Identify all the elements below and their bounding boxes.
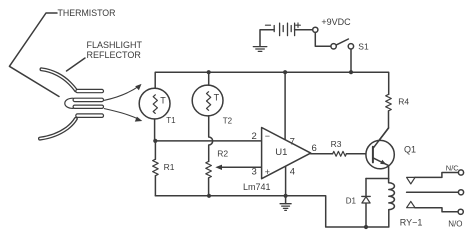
leader line from THERMISTOR label to sensor element [9, 13, 59, 97]
wire R1 leads [154, 141, 156, 196]
svg-text:R2: R2 [217, 149, 228, 159]
resistor R1 [153, 159, 159, 176]
terminal common [458, 190, 463, 195]
svg-text:RY−1: RY−1 [400, 217, 423, 227]
resistor R3 [333, 151, 347, 156]
thermistor T1 [139, 88, 170, 119]
svg-text:REFLECTOR: REFLECTOR [87, 50, 142, 60]
wire R4 to Q1 collector [374, 111, 389, 148]
svg-text:7: 7 [290, 136, 295, 147]
leader line from REFLECTOR label to reflector [67, 58, 86, 71]
resistor R4 [386, 94, 392, 111]
op-amp U1 [262, 128, 311, 179]
relay contact N/C [407, 177, 415, 184]
heat ray arrow upper [104, 86, 139, 101]
svg-text:N/O: N/O [448, 219, 462, 228]
potentiometer R2 [206, 161, 212, 178]
wire +V top rail [155, 72, 389, 94]
svg-text:T: T [214, 93, 220, 103]
svg-text:THERMISTOR: THERMISTOR [58, 8, 116, 18]
wire op-amp pin 4 to ground [285, 166, 287, 195]
svg-text:R3: R3 [331, 139, 342, 149]
wire node A to op-amp pin 2 [155, 140, 261, 142]
thermistor sensor fin 3 [73, 105, 103, 108]
relay coil RY-1 [389, 183, 395, 210]
junction pin7/rail [283, 70, 287, 74]
thermistor sensor fin 4 [76, 114, 104, 118]
switch S1 [331, 44, 336, 49]
wire R2 bottom lead [208, 178, 210, 196]
svg-text:R1: R1 [164, 162, 175, 172]
svg-text:U1: U1 [275, 147, 287, 158]
wire ground bottom rail [155, 196, 388, 227]
reflector upper horn [42, 69, 76, 90]
svg-text:D1: D1 [346, 197, 357, 206]
wire T2 top to rail [208, 72, 210, 85]
battery B1 9V [260, 30, 274, 46]
svg-text:N/C: N/C [446, 164, 460, 173]
svg-text:4: 4 [290, 166, 295, 177]
svg-text:−: − [265, 131, 270, 141]
svg-text:3: 3 [252, 167, 257, 178]
svg-text:S1: S1 [358, 42, 369, 52]
reflector lower horn [40, 119, 76, 139]
wire R2 wiper arrow to op-amp pin 3 [219, 166, 262, 168]
wire battery + to terminal [295, 29, 313, 31]
junction S1/rail [349, 70, 353, 74]
wire rail to op-amp pin 7 [284, 72, 286, 139]
wire op-amp pin 6 output to R3 [311, 153, 333, 155]
junction op-amp ground/bottom rail [284, 194, 288, 198]
svg-text:Q1: Q1 [404, 144, 416, 154]
junction D1/bottom wire [364, 225, 368, 229]
battery minus sign [265, 24, 270, 26]
thermistor sensor fin 2 [73, 98, 103, 101]
thermistor sensor fin 1 [76, 89, 104, 92]
svg-text:FLASHLIGHT: FLASHLIGHT [87, 40, 143, 50]
wire terminal to switch S1 [315, 33, 331, 47]
junction node A (T1/R1/pin2) [153, 139, 157, 143]
svg-text:R4: R4 [398, 97, 409, 107]
svg-text:T: T [160, 96, 166, 106]
wire T1 bottom to node A [154, 119, 156, 141]
svg-text:+9VDC: +9VDC [321, 17, 351, 27]
svg-text:T2: T2 [223, 117, 233, 126]
terminal N/O [458, 209, 463, 214]
svg-text:2: 2 [252, 131, 257, 142]
wire R3 to Q1 base [346, 153, 373, 155]
wire S1 to rail [350, 49, 352, 72]
thermistor T2 [192, 85, 223, 116]
junction T2/rail [207, 70, 211, 74]
svg-text:+: + [265, 167, 270, 177]
svg-text:T1: T1 [166, 116, 176, 125]
ground op-amp [285, 196, 287, 204]
diode D1 [365, 179, 367, 228]
terminal N/C [458, 170, 463, 175]
bulb arc of reflector [65, 98, 73, 108]
wire T2 to R2 with hop over pin-2 wire [209, 116, 213, 161]
relay contact N/O [407, 201, 415, 207]
terminal +9VDC [313, 27, 318, 32]
transistor Q1 [366, 140, 394, 168]
ground battery [253, 47, 266, 52]
battery plus sign [296, 23, 301, 28]
svg-text:6: 6 [312, 143, 317, 154]
relay armature common contact [407, 191, 459, 193]
junction R2/bottom rail [207, 194, 211, 198]
svg-text:Lm741: Lm741 [243, 182, 271, 192]
wire emitter node to diode D1 [366, 178, 389, 180]
heat ray arrow lower [104, 109, 139, 120]
